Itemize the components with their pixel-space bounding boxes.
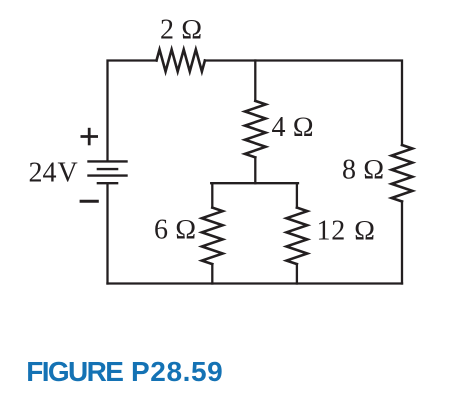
svg-text:2 Ω: 2 Ω [160,15,203,46]
svg-text:12 Ω: 12 Ω [317,216,377,247]
wire 6 ohm branch bottom [211,264,213,283]
wire 6 ohm branch top [211,183,213,207]
wire 12 ohm branch bottom [296,264,298,283]
svg-text:8 Ω: 8 Ω [342,155,385,186]
wire middle branch top [254,61,256,101]
wire top-left segment [108,61,157,162]
wire middle branch bottom [254,157,256,183]
wire 12 ohm branch top [296,183,298,207]
svg-text:P28.59: P28.59 [131,356,223,387]
resistor 4 ohm [245,101,266,157]
wire right-bottom segment [401,202,403,284]
wire top-right segment [205,61,402,146]
battery minus sign [80,200,99,203]
svg-text:6 Ω: 6 Ω [154,215,197,246]
wire left-bottom segment [106,184,108,284]
resistor 8 ohm [392,145,413,202]
wire bottom segment [108,282,403,284]
resistor 12 ohm [287,208,308,265]
svg-text:24: 24 [29,157,57,188]
node bar wire [211,182,298,184]
battery 24 V [87,161,127,183]
resistor 2 ohm [157,50,205,72]
svg-text:V: V [58,157,78,188]
svg-text:4 Ω: 4 Ω [272,112,315,143]
battery plus sign [81,128,99,146]
resistor 6 ohm [202,208,223,265]
svg-text:FIGURE: FIGURE [26,356,123,387]
